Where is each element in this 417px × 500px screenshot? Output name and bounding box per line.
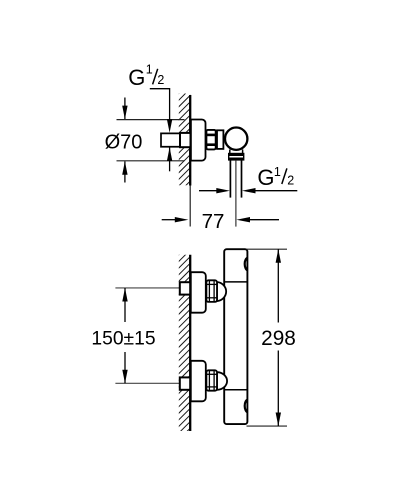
bottom cap separation line (224, 389, 247, 391)
svg-text:77: 77 (202, 210, 225, 233)
lower wall nut (180, 377, 190, 389)
top handle knob (245, 258, 248, 271)
wall hatching (bottom view) (178, 242, 191, 453)
supply pipe stub G1/2 (top view) (161, 133, 181, 146)
G1/2 outlet dimension arrows (199, 190, 218, 192)
wall face line (top view) (189, 95, 191, 186)
svg-text:G: G (257, 165, 274, 190)
lower union nut (206, 370, 217, 390)
svg-text:2: 2 (287, 174, 294, 188)
square union nut on wall (top view) (180, 133, 191, 147)
lower connection dome (217, 372, 227, 390)
upper wall nut (180, 282, 190, 294)
leader from G1/2 label to supply pipe (150, 89, 170, 122)
adapter body (top view) (217, 130, 223, 149)
outlet neck below circle (229, 150, 231, 154)
top cap separation line (224, 281, 247, 283)
svg-text:1: 1 (146, 63, 153, 77)
wall extension line down to 77 dimension (189, 186, 191, 227)
svg-text:G: G (128, 65, 145, 90)
svg-text:Ø70: Ø70 (105, 131, 143, 153)
outlet pipe centerline (235, 160, 237, 227)
outlet pipe G1/2 (top view) (229, 160, 231, 198)
mixer body bar (plan view) (224, 249, 247, 424)
upper escutcheon (191, 272, 206, 313)
outlet nut band (229, 154, 244, 160)
valve body circle (top view) (225, 128, 247, 150)
upper connection dome (217, 282, 226, 301)
77 dimension (162, 219, 177, 221)
150±15 extension line to upper connection (115, 287, 179, 289)
Ø70 dimension arrows (124, 98, 126, 120)
298 top extension line (247, 248, 288, 250)
150±15 extension line to lower connection (115, 382, 179, 384)
Ø70 extension lines (117, 119, 185, 121)
svg-text:2: 2 (157, 73, 164, 87)
wall face line (bottom view) (189, 255, 191, 431)
298 dimension line (276, 249, 281, 263)
bottom handle knob (245, 400, 248, 413)
upper union nut (206, 280, 217, 302)
298 bottom extension line (247, 425, 288, 427)
union nut (top view) (206, 130, 215, 150)
escutcheon Ø70 (top view, side) (191, 120, 206, 161)
lower escutcheon (191, 361, 206, 402)
svg-text:298: 298 (261, 327, 296, 350)
svg-text:150±15: 150±15 (91, 328, 155, 349)
150±15 dimension line (122, 288, 127, 302)
svg-text:1: 1 (274, 165, 281, 179)
